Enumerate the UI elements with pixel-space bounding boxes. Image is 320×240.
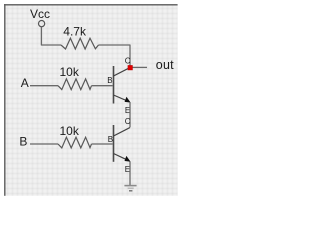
resistor R2 10k zigzag: [58, 79, 92, 90]
wire R3 to Q2 base: [92, 143, 113, 145]
wire Vcc drop to top rail: [41, 27, 61, 45]
svg-text:10k: 10k: [60, 124, 80, 138]
transistor Q1 collector diagonal: [114, 68, 130, 76]
Vcc terminal circle: [39, 21, 45, 27]
svg-text:Vcc: Vcc: [30, 7, 50, 21]
transistor Q2 base bar: [113, 125, 115, 162]
svg-text:E: E: [125, 165, 130, 174]
svg-text:C: C: [125, 117, 131, 126]
svg-text:out: out: [156, 58, 174, 72]
transistor Q2 emitter arrowhead: [125, 156, 131, 162]
wire R2 to Q1 base: [92, 85, 113, 87]
wire Q1 emitter to Q2 collector: [129, 102, 131, 127]
transistor Q1 base bar: [113, 66, 115, 104]
transistor Q2 emitter diagonal: [114, 154, 130, 161]
ground middle bar: [128, 188, 134, 189]
svg-text:B: B: [107, 76, 112, 85]
canvas frame left border: [4, 4, 5, 196]
transistor Q1 emitter diagonal: [114, 95, 130, 102]
schematic canvas background grid: [5, 5, 177, 196]
wire Q2 emitter to ground: [129, 162, 131, 186]
svg-text:B: B: [19, 134, 27, 148]
wire top rail to collector corner: [99, 45, 131, 66]
ground top bar: [124, 185, 136, 187]
ground bottom bar: [129, 190, 132, 191]
svg-text:B: B: [108, 135, 113, 144]
resistor R1 4.7k zigzag: [61, 38, 99, 49]
node out (red junction dot): [128, 65, 133, 70]
svg-text:A: A: [21, 76, 29, 90]
transistor Q1 emitter arrowhead: [125, 97, 131, 103]
transistor Q2 collector diagonal: [114, 128, 131, 137]
wire out: [132, 66, 147, 68]
wire input B: [30, 143, 58, 145]
svg-text:C: C: [125, 57, 131, 66]
wire input A: [30, 85, 58, 87]
svg-text:10k: 10k: [60, 65, 80, 79]
canvas frame top border: [4, 4, 178, 5]
resistor R3 10k zigzag: [58, 137, 92, 148]
svg-text:4.7k: 4.7k: [63, 25, 87, 39]
